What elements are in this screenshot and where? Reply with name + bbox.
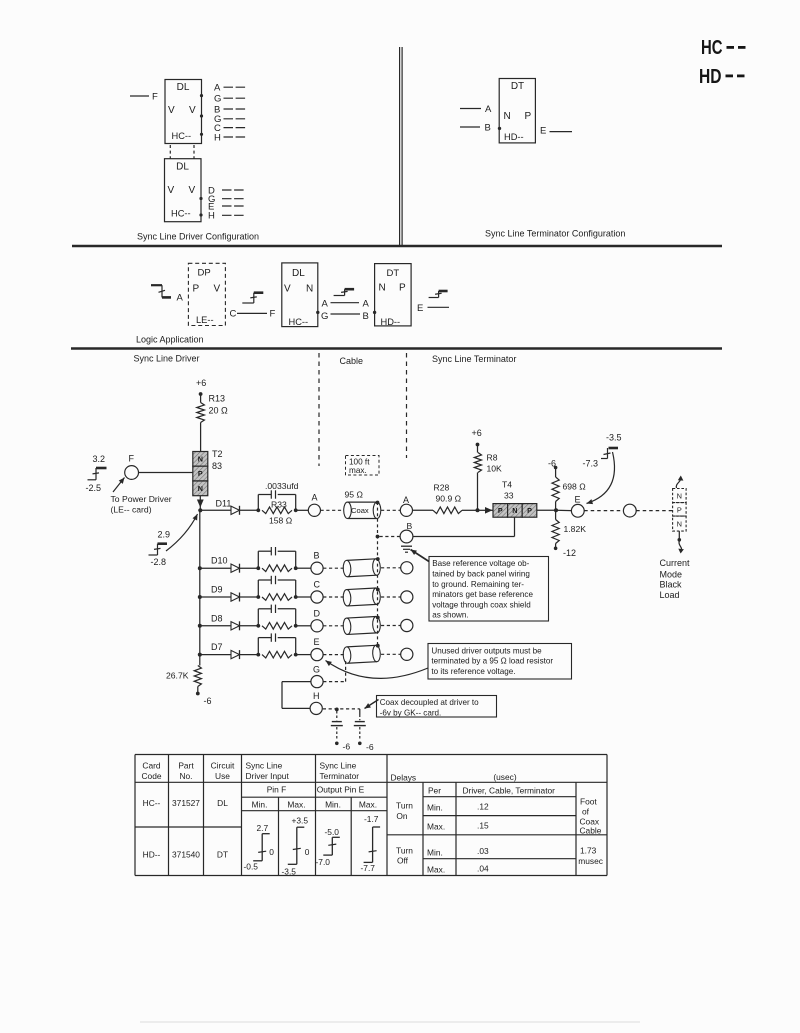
wire dashed node C to coax (323, 596, 344, 598)
junction dot RC left (row D) (256, 624, 260, 628)
svg-text:G: G (313, 665, 320, 675)
svg-text:R8: R8 (487, 453, 498, 463)
wire RC to node D (296, 625, 311, 627)
load emitter squiggle arrow down (679, 541, 682, 552)
svg-text:E: E (540, 126, 546, 137)
wire dashed coax C to right node (381, 596, 401, 598)
svg-text:Per: Per (428, 786, 441, 796)
coax shield bus dashed vertical (377, 502, 379, 646)
shield bus dot row A (376, 501, 380, 505)
svg-text:A: A (312, 493, 318, 503)
svg-text:C: C (314, 580, 321, 590)
svg-text:B: B (314, 551, 320, 561)
pin dot DL right (G) (316, 311, 319, 314)
coax cable row C (343, 588, 381, 606)
resistor R13 (197, 403, 205, 423)
resistor R33 (262, 507, 292, 514)
svg-text:max.: max. (349, 466, 367, 475)
junction dot D9 row (198, 595, 202, 599)
wire dashed connector DL1-DL2 right (193, 145, 195, 159)
svg-text:-6: -6 (343, 742, 351, 752)
svg-text:Min.: Min. (252, 800, 268, 810)
waveform step at F (88, 479, 97, 481)
svg-text:V: V (284, 284, 291, 295)
wire driver bus vertical (199, 510, 201, 665)
svg-text:R33: R33 (271, 500, 287, 510)
wire bus to diode D10 (200, 567, 231, 569)
svg-text:V: V (189, 105, 196, 116)
wire input A lead (DT box) (460, 108, 481, 110)
svg-text:Load: Load (660, 590, 680, 600)
resistor (row B) (262, 565, 292, 572)
svg-text:HD--: HD-- (381, 317, 401, 327)
wire dashed coax B to right node (381, 567, 401, 569)
wire R28 to junction (462, 509, 478, 511)
diode D9 (231, 593, 240, 601)
svg-text:H: H (214, 132, 221, 143)
curved arrow -7.3 to E node (587, 452, 615, 504)
resistor 26.7K (194, 666, 201, 687)
wire dashed node A to coax (321, 509, 345, 511)
pin dot DL2 right edge (H) (199, 213, 202, 216)
svg-text:371527: 371527 (172, 798, 200, 808)
svg-text:Driver Input: Driver Input (246, 771, 290, 781)
arrow to F node (113, 478, 125, 493)
svg-text:musec: musec (578, 856, 603, 866)
svg-text:Logic Application: Logic Application (136, 335, 204, 345)
svg-text:P: P (193, 284, 200, 295)
svg-text:HD--: HD-- (143, 850, 161, 860)
svg-text:83: 83 (212, 461, 222, 471)
svg-text:95 Ω: 95 Ω (345, 490, 364, 500)
svg-text:P: P (677, 505, 682, 514)
svg-text:0: 0 (269, 847, 274, 857)
svg-text:N: N (306, 284, 313, 295)
wire +6 to R13 (200, 394, 202, 403)
svg-text:Sync Line: Sync Line (320, 761, 357, 771)
svg-text:to ground. Remaining ter-: to ground. Remaining ter- (432, 580, 524, 589)
svg-text:No.: No. (179, 771, 192, 781)
capacitor loop (row D) (257, 609, 259, 626)
svg-text:Driver, Cable, Terminator: Driver, Cable, Terminator (463, 786, 556, 796)
junction dot RC left (row E) (256, 653, 260, 657)
svg-text:R13: R13 (209, 394, 226, 404)
node E circle (terminator) (571, 504, 584, 517)
boundary dashed line cable/terminator (406, 353, 408, 458)
svg-text:P: P (399, 283, 406, 294)
svg-text:-12: -12 (563, 548, 576, 558)
junction dot RC left (row A) (256, 508, 260, 512)
svg-text:Use: Use (215, 771, 230, 781)
svg-text:Min.: Min. (427, 803, 443, 813)
svg-text:HC--: HC-- (172, 131, 192, 141)
junction dot RC right (row E) (294, 653, 298, 657)
svg-text:Output Pin E: Output Pin E (317, 785, 365, 795)
capacitor loop (row C) (257, 580, 259, 597)
svg-text:DL: DL (292, 268, 305, 279)
svg-text:Sync Line Driver Configuration: Sync Line Driver Configuration (137, 232, 259, 242)
svg-text:minators get base reference: minators get base reference (432, 590, 533, 599)
ground symbol node B (401, 545, 412, 547)
svg-text:A: A (403, 495, 409, 505)
junction dot RC left (row B) (256, 566, 260, 570)
svg-text:DL: DL (176, 162, 189, 173)
logic block DL (lower, HC-- card) (165, 159, 202, 222)
svg-text:1.73: 1.73 (580, 845, 597, 855)
capacitor loop (row E) (257, 638, 259, 655)
terminal dot -6 698 (554, 466, 558, 470)
svg-text:HC--: HC-- (289, 317, 309, 327)
svg-text:Turn: Turn (396, 801, 413, 811)
diode D8 (231, 622, 240, 630)
resistor (row E) (262, 651, 292, 658)
svg-text:H: H (313, 691, 320, 701)
pin dot DT left edge (B) (498, 127, 501, 130)
svg-text:DL: DL (177, 82, 190, 93)
output pins D G E H of DL2 with wire stubs (208, 185, 245, 221)
svg-text:Coax: Coax (351, 506, 369, 515)
resistor R8 (474, 453, 481, 473)
wire bus to diode D8 (200, 625, 231, 627)
wire R8 to junction (477, 473, 479, 511)
svg-text:-6v by GK-- card.: -6v by GK-- card. (380, 709, 442, 718)
svg-text:D: D (314, 608, 321, 618)
svg-text:90.9 Ω: 90.9 Ω (436, 494, 462, 504)
coax cable row D (343, 616, 381, 634)
svg-text:LE--: LE-- (196, 315, 214, 325)
svg-text:B: B (363, 311, 369, 322)
shield bus dot row C (376, 588, 380, 592)
svg-text:.15: .15 (477, 821, 489, 831)
svg-text:Part: Part (178, 761, 194, 771)
svg-text:P: P (198, 469, 203, 478)
node circle (cable joint) (623, 504, 636, 517)
note box unused driver outputs (428, 644, 572, 680)
svg-text:Sync Line: Sync Line (246, 761, 283, 771)
wire dashed joint to load (636, 510, 672, 512)
svg-text:V: V (214, 284, 221, 295)
svg-text:D9: D9 (211, 585, 223, 595)
svg-text:Min.: Min. (325, 800, 341, 810)
wire dashed H to decoupling caps (323, 708, 360, 710)
svg-text:tained by back panel wiring: tained by back panel wiring (432, 570, 530, 579)
wire dashed connector DL1-DL2 left (169, 145, 171, 159)
svg-text:N: N (198, 484, 203, 493)
svg-text:A: A (485, 104, 492, 115)
svg-text:DT: DT (387, 268, 400, 279)
svg-text:of: of (582, 806, 590, 816)
svg-text:Turn: Turn (396, 845, 413, 855)
svg-text:+6: +6 (196, 378, 206, 388)
note box coax decoupled (377, 696, 497, 718)
svg-text:voltage through coax shield: voltage through coax shield (432, 600, 531, 609)
resistor (row D) (262, 623, 292, 630)
svg-text:.04: .04 (477, 863, 489, 873)
diode D7 (231, 650, 240, 658)
svg-text:+6: +6 (472, 428, 482, 438)
wire diode D9 to RC (240, 596, 258, 598)
wire stub cap2 top (359, 709, 361, 715)
junction dot RC right (row C) (294, 595, 298, 599)
wire 698 to junction (555, 502, 557, 511)
node D circle (driver) (311, 620, 323, 632)
svg-text:-5.0: -5.0 (325, 827, 340, 837)
waveform falling step at DP input (151, 284, 162, 286)
capacitor C-decouple-1 (336, 711, 338, 720)
svg-text:Max.: Max. (359, 800, 377, 810)
node G circle (311, 676, 323, 688)
svg-text:-3.5: -3.5 (282, 867, 297, 877)
svg-text:F: F (129, 454, 135, 464)
svg-text:Sync Line Terminator Configura: Sync Line Terminator Configuration (485, 229, 625, 239)
svg-text:D10: D10 (211, 556, 228, 566)
node C circle (driver) (311, 591, 323, 603)
svg-text:G: G (321, 311, 328, 322)
diode D11 (231, 506, 240, 514)
svg-text:-7.3: -7.3 (583, 459, 599, 469)
terminal dot load emitter (678, 538, 682, 542)
svg-text:Max.: Max. (287, 800, 305, 810)
junction dot RC right (row D) (294, 624, 298, 628)
boundary dashed line driver/cable (318, 353, 320, 466)
curved arrow to D11 junction (166, 514, 198, 551)
svg-text:2.9: 2.9 (158, 530, 171, 540)
svg-text:.12: .12 (477, 802, 489, 812)
svg-text:Cable: Cable (340, 356, 364, 366)
svg-text:-7.7: -7.7 (361, 863, 376, 873)
svg-text:158 Ω: 158 Ω (269, 516, 293, 526)
waveform step -3.5/-7.3 (609, 447, 619, 450)
logic block DT (HD-- card) (499, 79, 535, 143)
svg-text:-7.0: -7.0 (316, 857, 331, 867)
svg-text:DP: DP (198, 268, 211, 279)
svg-text:E: E (417, 303, 423, 314)
output pins A G B G C H of DL1 with wire stubs (214, 83, 246, 144)
svg-text:Card: Card (142, 761, 160, 771)
svg-text:Delays: Delays (391, 773, 417, 783)
svg-text:H: H (208, 211, 215, 222)
right node circle row E (401, 648, 413, 660)
junction dot D11 node (198, 508, 202, 512)
waveform step at D11 node (149, 554, 158, 556)
transistor T4 (PNP bar) (493, 504, 508, 518)
svg-text:P: P (525, 111, 532, 122)
wire dashed E to repeater circle (584, 510, 623, 512)
shield bus dot row E (376, 644, 380, 648)
svg-text:P: P (498, 506, 503, 515)
wire dashed G to coax shield drop (323, 681, 345, 683)
svg-text:Sync Line Driver: Sync Line Driver (134, 354, 200, 364)
junction dot D10 row (198, 566, 202, 570)
svg-text:26.7K: 26.7K (166, 671, 189, 681)
svg-text:2.7: 2.7 (257, 823, 269, 833)
wire RC to node B (296, 567, 311, 569)
wire input F lead (top DL box) (130, 95, 149, 97)
svg-text:Pin F: Pin F (267, 785, 287, 795)
logic block DL (logic application) (282, 263, 318, 327)
svg-text:R28: R28 (434, 483, 450, 493)
svg-text:HC: HC (701, 36, 723, 59)
svg-text:On: On (396, 811, 408, 821)
wire junction to 1.82K (555, 510, 557, 519)
wire E output stub (428, 306, 450, 308)
wire dashed drop from E coax to G (345, 661, 347, 682)
horizontal section divider 2 (71, 347, 722, 349)
wire T4 collector to E junction (537, 509, 556, 511)
wire diode D8 to RC (240, 625, 258, 627)
wire T2 emitter with arrow (199, 496, 201, 510)
svg-text:DL: DL (217, 798, 228, 808)
capacitor C-decouple-2 (359, 715, 361, 721)
junction dot RC right (row A) (294, 508, 298, 512)
vertical divider line (399, 47, 401, 245)
note box base reference voltage (429, 557, 549, 622)
transistor T4 base wire to node B (514, 517, 516, 536)
svg-text:Current: Current (660, 558, 691, 568)
svg-text:terminated by a 95 Ω load resi: terminated by a 95 Ω load resistor (431, 657, 553, 666)
svg-text:-1.7: -1.7 (364, 814, 379, 824)
shield bus dot node B line (376, 535, 380, 539)
svg-text:to its reference voltage.: to its reference voltage. (431, 667, 515, 676)
horizontal section divider 1 (72, 245, 722, 247)
resistor (row C) (262, 594, 292, 601)
svg-text:HD: HD (699, 65, 722, 88)
arrow note3 to H wire (365, 700, 379, 709)
table grid lines (135, 755, 607, 876)
wire bus to diode D7 (200, 654, 231, 656)
node E circle (driver) (311, 649, 323, 661)
svg-text:Terminator: Terminator (320, 771, 360, 781)
right node circle row D (401, 619, 413, 631)
shield bus dot row D (376, 616, 380, 620)
svg-text:B: B (407, 521, 413, 531)
waveform rising step A-A (334, 295, 345, 297)
svg-text:-2.5: -2.5 (86, 483, 102, 493)
svg-text:.0033ufd: .0033ufd (265, 481, 299, 491)
wire dashed node B to shield bus (378, 536, 401, 538)
node B circle (driver) (311, 562, 323, 574)
svg-text:10K: 10K (487, 464, 503, 474)
svg-text:Code: Code (141, 771, 161, 781)
logic block DP (dashed, LE-- card) (188, 263, 225, 325)
wire dashed coax D to right node (381, 625, 401, 627)
svg-text:E: E (575, 495, 581, 505)
svg-text:F: F (152, 92, 158, 103)
svg-text:3.2: 3.2 (93, 454, 106, 464)
pin dot DL1 right edge (G2) (200, 114, 203, 117)
svg-text:DT: DT (511, 81, 524, 92)
svg-text:1.82K: 1.82K (564, 524, 587, 534)
capacitor .0033ufd loop (row A) (257, 495, 259, 511)
coax cable row B (343, 559, 381, 577)
svg-text:33: 33 (504, 491, 514, 501)
node A circle (driver) (308, 504, 320, 516)
resistor 1.82K (552, 520, 559, 544)
coax cable row A (344, 502, 381, 518)
dashed box 100 ft max (346, 456, 380, 476)
right node circle row B (401, 562, 413, 574)
junction dot RC right (row B) (294, 566, 298, 570)
svg-text:D7: D7 (211, 642, 223, 652)
junction dot H cap1 (335, 708, 339, 712)
svg-text:20 Ω: 20 Ω (209, 406, 229, 416)
svg-text:Off: Off (397, 856, 409, 866)
svg-text:V: V (189, 185, 196, 196)
wire diode D10 to RC (240, 567, 258, 569)
wire node A to R28 (413, 509, 434, 511)
curved arrow note2 to node E (326, 661, 429, 679)
junction dot D7 row (198, 653, 202, 657)
wire dashed node E to coax (323, 654, 344, 656)
capacitor loop (row B) (257, 551, 259, 568)
faint scan artifact line (140, 1021, 640, 1023)
svg-text:V: V (168, 185, 175, 196)
junction dot D8 row (198, 624, 202, 628)
wire R13 to T2 (200, 423, 202, 452)
svg-text:-3.5: -3.5 (606, 433, 622, 443)
wire dashed coax E to right node (381, 653, 401, 655)
svg-text:A: A (322, 299, 329, 310)
svg-text:N: N (512, 506, 517, 515)
svg-text:Base reference voltage ob-: Base reference voltage ob- (432, 559, 529, 568)
pin dot DL1 right edge (G) (200, 94, 203, 97)
terminal dot +6 R8 (476, 443, 480, 447)
svg-text:A: A (177, 293, 184, 304)
resistor 698 ohm (552, 477, 559, 502)
wire dashed node D to coax (323, 625, 344, 627)
svg-text:To Power Driver: To Power Driver (111, 494, 172, 504)
table text (141, 761, 602, 875)
svg-text:Unused driver outputs must be: Unused driver outputs must be (431, 646, 542, 655)
svg-text:T4: T4 (502, 480, 512, 490)
svg-text:A: A (363, 299, 370, 310)
wire diode D11 to RC network (240, 509, 258, 511)
svg-text:-0.5: -0.5 (244, 862, 259, 872)
svg-text:698 Ω: 698 Ω (563, 482, 587, 492)
svg-text:Foot: Foot (580, 796, 597, 806)
svg-text:(LE-- card): (LE-- card) (111, 504, 152, 514)
wire +6 to R8 (477, 445, 479, 453)
pin dot DL1 right edge (H) (200, 133, 203, 136)
svg-text:N: N (198, 455, 203, 464)
current mode load NPN bar (673, 489, 687, 503)
svg-text:Mode: Mode (660, 570, 683, 580)
terminal dot -12 (554, 547, 558, 551)
transistor T2 (NPN bar) (193, 452, 208, 467)
svg-text:D11: D11 (216, 499, 232, 509)
terminal dot -6 cap1 (335, 742, 339, 746)
wire F to T2 base (139, 472, 193, 474)
svg-text:0: 0 (305, 847, 310, 857)
load collector squiggle arrow up (676, 477, 680, 488)
wire G-B (331, 313, 361, 315)
wire RC to node E (296, 654, 311, 656)
svg-text:P: P (527, 506, 532, 515)
svg-text:D8: D8 (211, 613, 223, 623)
wire bus to diode D9 (200, 596, 231, 598)
svg-text:-2.8: -2.8 (151, 557, 167, 567)
svg-text:-6: -6 (204, 696, 212, 706)
svg-text:Sync Line Terminator: Sync Line Terminator (432, 354, 516, 364)
pin dot DT left (B) (373, 311, 376, 314)
wire input B lead (DT box) (460, 126, 480, 128)
node H circle (310, 702, 322, 714)
svg-text:C: C (230, 309, 237, 320)
wire bracket G-H left (282, 681, 311, 683)
wire RC to node C (296, 596, 311, 598)
right node circle row C (401, 591, 413, 603)
wire C to F (237, 312, 267, 314)
